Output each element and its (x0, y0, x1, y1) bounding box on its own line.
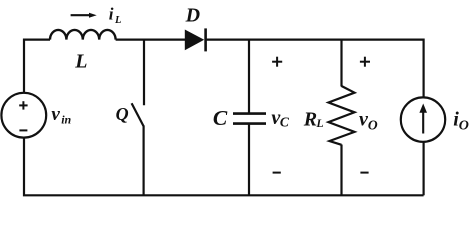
plus sign load voltage (360, 57, 370, 67)
capacitor C upper lead (248, 39, 250, 114)
svg-text:R: R (303, 109, 317, 131)
label R_L (303, 109, 324, 131)
label v_C (271, 107, 290, 129)
current source arrow (419, 104, 427, 134)
label v_O (359, 109, 378, 133)
wire: top rail inductor to diode anode (116, 38, 186, 40)
minus sign load voltage (360, 172, 368, 174)
resistor RL lower lead (340, 145, 342, 196)
voltage source plus sign (19, 101, 27, 109)
svg-text:C: C (213, 106, 228, 130)
svg-text:C: C (280, 114, 290, 129)
svg-text:in: in (61, 113, 71, 127)
svg-text:Q: Q (116, 104, 129, 124)
wire: top rail diode to top-right corner (206, 40, 424, 98)
switch Q blade (132, 103, 144, 126)
inductor L (50, 30, 116, 40)
current source iO circle (401, 97, 445, 141)
label i_L (109, 5, 122, 26)
label v_in (51, 104, 71, 127)
minus sign capacitor voltage (273, 172, 281, 174)
plus sign capacitor voltage (272, 57, 282, 67)
diode D cathode bar (204, 28, 207, 51)
capacitor C plates (233, 114, 266, 124)
svg-text:L: L (315, 116, 323, 130)
capacitor C lower lead (248, 124, 250, 196)
voltage source minus sign (19, 129, 27, 131)
svg-text:L: L (114, 15, 121, 26)
svg-text:L: L (74, 51, 87, 73)
wire: left rail bottom + bottom rail (24, 138, 424, 196)
svg-text:O: O (459, 119, 469, 134)
label i_O (453, 109, 469, 134)
current arrow i_L (71, 13, 97, 18)
switch Q lower lead (143, 126, 145, 196)
switch Q upper lead (143, 39, 145, 106)
svg-text:D: D (185, 5, 200, 27)
wire: left rail top corner (source top to inductor start) (24, 40, 50, 93)
voltage source Vin circle (1, 93, 46, 138)
svg-text:v: v (51, 104, 60, 125)
resistor RL zigzag (329, 86, 355, 145)
svg-text:O: O (368, 117, 378, 132)
resistor RL upper lead (340, 39, 342, 87)
diode D triangle (185, 30, 204, 51)
svg-text:i: i (109, 5, 114, 24)
wire: right rail lower (current source to bottom rail) (423, 142, 425, 195)
